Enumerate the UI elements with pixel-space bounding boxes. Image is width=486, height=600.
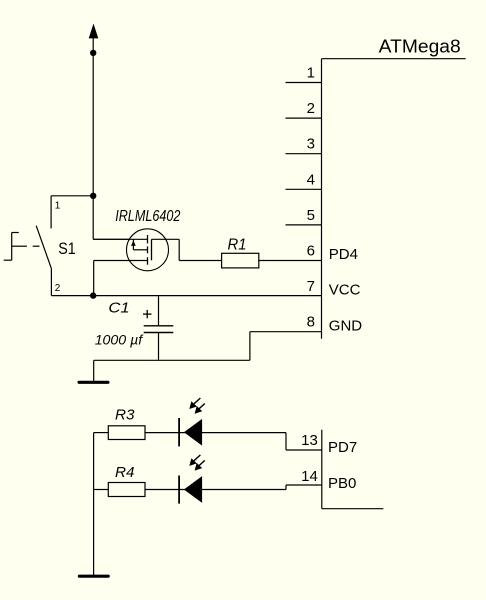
svg-text:1: 1 [55,200,61,211]
switch S1 actuator rod [12,245,40,247]
svg-text:R3: R3 [115,407,135,423]
wire: drop to ground [93,360,95,381]
wire: left rail to R3 [94,432,109,434]
LED D1 [179,418,202,446]
pin 1 stub [286,82,322,84]
svg-text:C1: C1 [108,299,129,316]
svg-text:R4: R4 [115,465,135,481]
svg-text:PB0: PB0 [328,475,356,492]
transistor Q1 IRLML6402 [93,229,179,271]
power arrow (+V) [89,24,99,53]
switch S1 lever [36,226,51,269]
capacitor C1 [144,296,174,361]
svg-text:PD4: PD4 [329,246,358,263]
wire: rail bend to MOSFET source [93,238,147,240]
wire: switch pin1 horizontal [51,195,93,197]
svg-text:S1: S1 [58,240,75,258]
svg-text:ATMega8: ATMega8 [379,37,461,57]
wire: bottom rail (gnd to pin8 drop) [94,359,250,361]
switch S1 pin1 lead [50,196,52,229]
svg-text:2: 2 [55,283,61,294]
svg-text:6: 6 [307,243,315,260]
svg-text:GND: GND [329,317,363,334]
LED D2 light arrows [189,455,205,471]
resistor R1 [222,253,259,268]
pin 4 stub [286,188,322,190]
wire: jog down to pin 13 [285,433,287,450]
svg-text:5: 5 [307,207,315,224]
resistor R4 [108,483,145,497]
LED D1 light arrows [189,398,205,414]
svg-text:VCC: VCC [329,281,361,298]
C1 plus sign [143,310,152,318]
svg-text:2: 2 [307,100,315,117]
svg-text:8: 8 [307,314,315,331]
svg-text:7: 7 [307,278,315,295]
svg-text:1000 µf: 1000 µf [95,332,145,348]
switch S1 actuator bracket [4,233,19,261]
wire: gate rail down to VCC rail [93,261,95,296]
junction dot (VCC rail) [90,292,96,298]
IC U1 ATMega8 body [322,59,466,339]
LED D2 [179,476,202,504]
pin 3 stub [286,153,322,155]
wire: left rail to R4 [94,489,109,491]
svg-text:13: 13 [301,432,318,449]
wire: R3 to LED1 and on to jog [145,432,286,434]
pin 2 stub [286,117,322,119]
resistor R3 [108,426,145,440]
ground (LED section) [78,575,110,578]
switch S1 pin2 lead [50,268,52,295]
wire: MOSFET gate to left rail [94,260,148,262]
svg-text:14: 14 [301,468,318,485]
wire: jog up to pin 14 [285,485,287,490]
svg-text:PD7: PD7 [328,439,357,456]
wire: pin8 drop [249,332,251,361]
pin 14 stub [286,484,322,486]
svg-text:3: 3 [307,136,315,153]
junction dot (switch pin1 rail) [90,193,96,199]
pin 5 stub [286,224,322,226]
wire: main vertical rail from arrow to MOSFET source bend [92,53,94,239]
wire: LED left rail down [93,433,95,576]
ground (C1 section) [78,381,110,384]
svg-text:IRLML6402: IRLML6402 [115,208,181,225]
svg-text:1: 1 [307,65,315,82]
wire: VCC rail (switch pin2 to pin 7) [51,295,321,297]
wire: pin8 stub [250,331,322,333]
wire: R4 to LED2 and on to jog [145,489,286,491]
wire: drain to R1 [179,260,221,262]
pin 13 stub [286,449,322,451]
svg-text:4: 4 [307,171,315,188]
svg-text:R1: R1 [228,237,247,254]
wire: R1 to pin 6 [259,260,322,262]
junction dot (top, on +V rail) [90,50,96,56]
wire: MOSFET drain down-step [178,239,180,260]
IC U1 lower body (pins 13-14) [322,430,384,509]
